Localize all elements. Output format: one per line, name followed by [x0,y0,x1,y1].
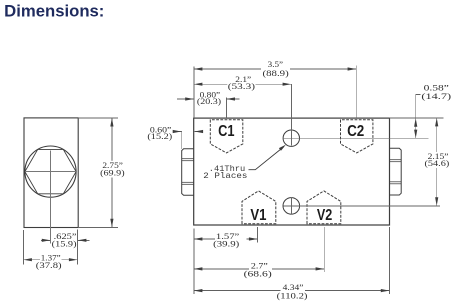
svg-text:(69.9): (69.9) [100,167,125,177]
svg-text:(54.6): (54.6) [425,158,450,168]
svg-text:Dimensions:: Dimensions: [4,2,104,20]
svg-text:(53.3): (53.3) [228,81,255,91]
svg-text:(68.6): (68.6) [244,269,272,279]
svg-text:(88.9): (88.9) [263,68,289,78]
svg-text:(39.9): (39.9) [213,239,239,249]
svg-text:(110.2): (110.2) [277,291,308,301]
svg-text:(15.2): (15.2) [147,131,172,141]
svg-text:(15.9): (15.9) [52,239,77,249]
svg-text:C1: C1 [218,123,235,140]
svg-text:V2: V2 [317,207,332,224]
svg-text:C2: C2 [347,123,364,140]
svg-text:V1: V1 [250,207,266,224]
svg-text:(20.3): (20.3) [197,96,221,106]
svg-text:2 Places: 2 Places [203,171,247,181]
svg-text:(14.7): (14.7) [421,91,451,101]
svg-text:(37.8): (37.8) [36,260,62,270]
